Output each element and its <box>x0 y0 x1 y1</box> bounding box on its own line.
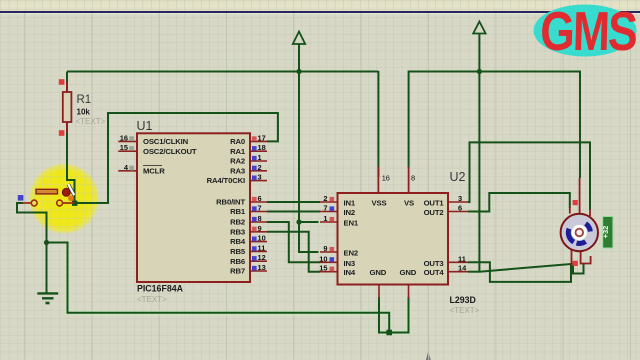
svg-text:18: 18 <box>258 143 266 152</box>
svg-text:RB0/INT: RB0/INT <box>216 198 245 207</box>
svg-text:<TEXT>: <TEXT> <box>76 117 106 126</box>
svg-text:7: 7 <box>323 204 327 213</box>
svg-text:R1: R1 <box>77 94 92 106</box>
wire diagonal to motor bottom <box>479 264 577 272</box>
svg-text:RB4: RB4 <box>230 237 246 246</box>
wire EN1 branch <box>299 221 319 223</box>
svg-text:+32: +32 <box>601 226 610 239</box>
wire bus C to motor top <box>479 72 580 179</box>
svg-text:RB3: RB3 <box>230 227 245 236</box>
chip U2 L293D <box>319 167 479 315</box>
power arrow 2 <box>473 22 485 34</box>
svg-text:RA3: RA3 <box>230 166 245 175</box>
U2 bottom pins <box>379 285 409 299</box>
U2 pin labels <box>344 199 417 278</box>
svg-text:2: 2 <box>323 194 327 203</box>
junction dot bus-arrow1 <box>296 69 301 74</box>
wire VS column to bus B <box>409 72 480 169</box>
chip U1 PIC16F84A <box>118 119 267 304</box>
svg-text:17: 17 <box>258 133 266 142</box>
svg-text:8: 8 <box>411 174 415 183</box>
svg-text:9: 9 <box>258 224 262 233</box>
wire RB2 to IN3 <box>267 222 320 262</box>
svg-text:VS: VS <box>404 199 414 208</box>
U2 pin numbers <box>319 194 327 273</box>
svg-text:14: 14 <box>458 264 467 273</box>
U1 left pins <box>118 141 137 170</box>
junction dot button node <box>72 201 77 206</box>
selection glow on ground net <box>68 244 409 333</box>
svg-text:RA4/T0CKI: RA4/T0CKI <box>207 176 245 185</box>
svg-text:MCLR: MCLR <box>143 166 165 175</box>
wire OUT1 to motor top-right <box>468 142 590 210</box>
svg-text:RB5: RB5 <box>230 247 246 256</box>
mouse cursor <box>426 352 431 360</box>
svg-text:RB6: RB6 <box>230 257 245 266</box>
svg-text:RA2: RA2 <box>230 157 245 166</box>
logic state square (button left net) <box>18 195 24 201</box>
wire OUT3 to motor bottom-left <box>468 262 571 282</box>
svg-text:OUT3: OUT3 <box>424 259 444 268</box>
svg-text:10: 10 <box>319 254 327 263</box>
svg-text:IN2: IN2 <box>344 208 356 217</box>
U1 pin numbers left <box>120 133 129 171</box>
U2 left pins <box>320 202 338 272</box>
wire RB1 to IN2 <box>267 211 320 213</box>
wire VCC bus left segment <box>67 71 378 73</box>
svg-text:EN2: EN2 <box>344 249 359 258</box>
junction dot GND rail <box>386 330 392 336</box>
wire RB0 to IN1 <box>267 201 320 203</box>
svg-text:RA1: RA1 <box>230 147 246 156</box>
wire button right to RA0 <box>75 113 278 203</box>
wire ground junction to U2 GND rail <box>47 243 390 333</box>
svg-text:RB2: RB2 <box>230 218 245 227</box>
svg-text:GMS: GMS <box>539 1 637 63</box>
GMS logo <box>534 1 638 63</box>
wire button left to ground junction <box>17 203 47 293</box>
svg-text:12: 12 <box>258 253 266 262</box>
junction dot EN1 <box>296 219 301 224</box>
highlight circle around push button <box>27 161 102 237</box>
svg-text:U2: U2 <box>450 170 466 184</box>
U1 pin numbers right <box>258 133 266 272</box>
svg-text:9: 9 <box>323 244 327 253</box>
wire power rail down to EN1 EN2 <box>299 44 319 252</box>
svg-text:VSS: VSS <box>372 199 387 208</box>
svg-text:6: 6 <box>458 204 462 213</box>
wire VSS column from bus <box>377 71 379 177</box>
svg-text:2: 2 <box>258 163 262 172</box>
wire motor bottom joining step <box>573 264 584 274</box>
U2 top pins <box>378 167 408 193</box>
U2 right pins <box>448 202 468 272</box>
junction dot bus-arrow2 <box>477 69 482 74</box>
svg-text:OUT1: OUT1 <box>424 199 445 208</box>
motor angle label +32 <box>601 217 613 249</box>
svg-text:PIC16F84A: PIC16F84A <box>137 284 184 294</box>
U1 right pins <box>250 141 267 271</box>
wire R1 top connection <box>66 72 68 85</box>
power arrow 1 <box>293 32 305 45</box>
svg-text:IN4: IN4 <box>344 268 356 277</box>
junction dot ground branch <box>44 240 49 245</box>
svg-text:11: 11 <box>458 254 466 263</box>
svg-text:U1: U1 <box>137 119 153 133</box>
svg-text:8: 8 <box>258 214 262 223</box>
svg-text:10k: 10k <box>77 108 91 117</box>
svg-text:1: 1 <box>323 214 327 223</box>
wire OUT4 stub <box>468 271 479 273</box>
svg-text:OUT2: OUT2 <box>424 208 444 217</box>
svg-text:3: 3 <box>258 173 262 182</box>
svg-text:<TEXT>: <TEXT> <box>137 295 167 304</box>
ground symbol left <box>37 293 58 303</box>
svg-text:10: 10 <box>258 234 266 243</box>
wire U2 GND pins join <box>379 297 409 333</box>
wire arrow2 rail down to OUT4 diagonal <box>478 33 480 272</box>
svg-text:RA0: RA0 <box>230 137 245 146</box>
wire OUT2 to motor top-left <box>468 193 570 212</box>
svg-text:3: 3 <box>458 194 462 203</box>
svg-text:OSC1/CLKIN: OSC1/CLKIN <box>143 137 189 146</box>
stepper motor <box>561 178 598 266</box>
svg-text:6: 6 <box>258 194 262 203</box>
svg-text:GND: GND <box>400 268 417 277</box>
svg-text:1: 1 <box>258 153 262 162</box>
svg-text:OUT4: OUT4 <box>424 268 445 277</box>
resistor R1 <box>59 79 106 136</box>
svg-text:7: 7 <box>258 204 262 213</box>
svg-text:13: 13 <box>258 263 266 272</box>
svg-text:EN1: EN1 <box>344 219 359 228</box>
svg-text:11: 11 <box>258 243 266 252</box>
svg-text:OSC2/CLKOUT: OSC2/CLKOUT <box>143 147 197 156</box>
svg-text:IN1: IN1 <box>344 199 356 208</box>
svg-text:GND: GND <box>370 268 387 277</box>
push button <box>23 184 75 206</box>
svg-text:RB7: RB7 <box>230 267 245 276</box>
svg-text:15: 15 <box>120 143 128 152</box>
svg-text:IN3: IN3 <box>344 259 356 268</box>
svg-text:<TEXT>: <TEXT> <box>450 306 480 315</box>
svg-text:RB1: RB1 <box>230 207 246 216</box>
svg-text:16: 16 <box>120 133 128 142</box>
svg-text:16: 16 <box>382 174 390 183</box>
wire R1 bottom to button <box>67 130 75 203</box>
svg-text:15: 15 <box>319 264 327 273</box>
U1 pin labels <box>143 137 197 175</box>
svg-text:L293D: L293D <box>450 295 476 305</box>
wire RB3 to IN4 <box>267 232 320 272</box>
